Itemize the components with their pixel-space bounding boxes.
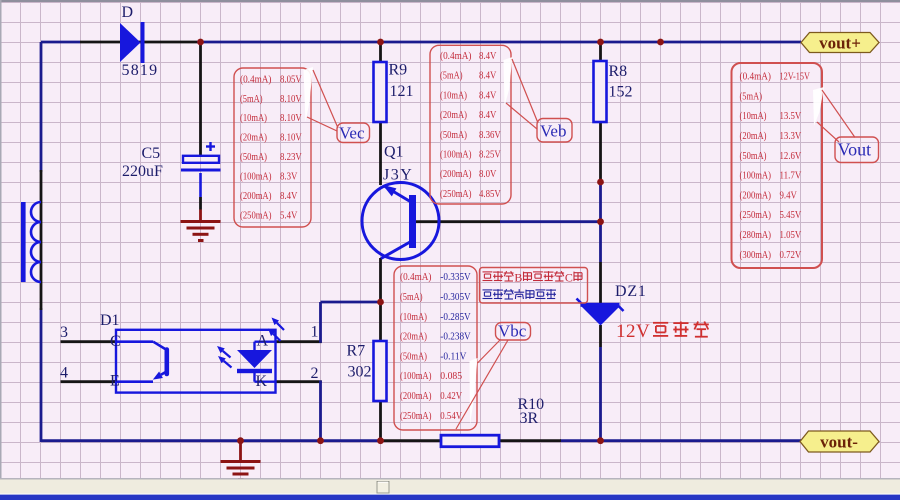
inductor winding (transformer) [21, 202, 41, 282]
svg-text:(20mA): (20mA) [440, 109, 467, 121]
junction dot 5 [377, 299, 384, 306]
svg-text:9.4V: 9.4V [780, 189, 797, 201]
svg-text:(250mA): (250mA) [740, 209, 772, 221]
svg-text:8.36V: 8.36V [479, 129, 501, 141]
svg-text:(0.4mA): (0.4mA) [740, 71, 772, 83]
junction dot 9 [317, 437, 324, 444]
value 5819 [122, 62, 159, 79]
callout lines Veb [506, 59, 538, 129]
wire: opto pin 4 lead [61, 380, 117, 383]
svg-text:(20mA): (20mA) [240, 132, 267, 144]
callout lines Vec [307, 70, 338, 131]
opto arrows at pin A (outer) [268, 318, 284, 342]
svg-text:8.0V: 8.0V [479, 168, 496, 180]
callout label Veb [537, 119, 572, 143]
svg-text:C: C [565, 271, 573, 285]
value 220uF [122, 163, 163, 180]
wire: zener to bottom rail [599, 325, 602, 442]
svg-text:-0.305V: -0.305V [440, 291, 470, 303]
status bar blue [0, 494, 900, 500]
scrollbar track [0, 478, 900, 494]
svg-text:220uF: 220uF [122, 163, 163, 180]
svg-text:13.5V: 13.5V [780, 110, 802, 122]
wire: bottom rail navy [242, 439, 801, 442]
zener note: 12V regulator text [616, 321, 709, 342]
transistor Q1 J3Y [362, 183, 439, 260]
svg-text:(200mA): (200mA) [440, 168, 472, 180]
label D1 [100, 312, 120, 329]
wire: opto pin 2 lead and drop to bottom rail [276, 381, 322, 443]
svg-text:(100mA): (100mA) [440, 149, 472, 161]
svg-text:(10mA): (10mA) [740, 110, 767, 122]
svg-text:302: 302 [348, 364, 372, 381]
svg-text:E: E [110, 373, 120, 390]
svg-text:R7: R7 [347, 343, 366, 360]
junction dot 7 [597, 218, 604, 225]
diode D 5819 [120, 22, 145, 63]
junction dot 8 [237, 437, 244, 444]
wire: inductor black section [40, 170, 43, 310]
svg-text:(200mA): (200mA) [240, 190, 272, 202]
svg-text:vout+: vout+ [819, 34, 861, 53]
svg-text:0.42V: 0.42V [440, 390, 462, 402]
svg-text:-0.335V: -0.335V [440, 271, 470, 283]
resistor R10 3R [441, 435, 499, 447]
svg-text:1.05V: 1.05V [780, 229, 802, 241]
junction dot 10 [377, 437, 384, 444]
svg-text:C: C [110, 333, 121, 350]
svg-text:D: D [122, 4, 134, 21]
measurement table Vbc [394, 266, 477, 430]
annotation box (red note) [480, 268, 588, 304]
label R8 [609, 63, 628, 80]
svg-text:Veb: Veb [540, 122, 566, 141]
svg-text:-0.238V: -0.238V [440, 331, 470, 343]
wire: bottom rail black segments at R10 [383, 439, 561, 442]
opto transistor [116, 342, 167, 382]
value 302 [348, 364, 372, 381]
svg-text:8.4V: 8.4V [479, 50, 496, 62]
svg-text:8.4V: 8.4V [479, 109, 496, 121]
svg-text:8.4V: 8.4V [280, 190, 297, 202]
svg-text:(100mA): (100mA) [400, 370, 432, 382]
svg-text:13.3V: 13.3V [780, 130, 802, 142]
svg-text:4: 4 [60, 365, 68, 382]
scrollbar thumb [377, 482, 389, 494]
pin number 2 [311, 365, 319, 382]
value 121 [390, 83, 414, 100]
resistor R8 152 [594, 61, 607, 122]
value 3R [520, 410, 539, 427]
svg-text:8.3V: 8.3V [280, 171, 297, 183]
svg-text:(0.4mA): (0.4mA) [440, 50, 472, 62]
svg-text:8.23V: 8.23V [280, 151, 302, 163]
svg-text:Vec: Vec [339, 124, 365, 143]
svg-text:3R: 3R [520, 410, 539, 427]
svg-text:(200mA): (200mA) [400, 390, 432, 402]
wire: Q1 base wire [416, 220, 601, 223]
label R9 [389, 62, 408, 79]
svg-text:R8: R8 [609, 63, 628, 80]
svg-text:12V-15V: 12V-15V [780, 71, 810, 83]
ground (C5) [181, 210, 221, 241]
svg-text:8.10V: 8.10V [280, 132, 302, 144]
junction dot 11 [597, 437, 604, 444]
resistor R7 302 [374, 341, 387, 401]
junction dot 3 [597, 39, 604, 46]
svg-text:12.6V: 12.6V [780, 150, 802, 162]
label D [122, 4, 134, 21]
svg-text:C5: C5 [142, 145, 161, 162]
svg-text:0.72V: 0.72V [780, 249, 802, 261]
svg-text:11.7V: 11.7V [780, 170, 802, 182]
power port vout+ [801, 33, 879, 53]
zener diode DZ1 [577, 299, 624, 326]
junction dot 1 [197, 39, 204, 46]
label C5 [142, 145, 161, 162]
svg-text:Vbc: Vbc [498, 322, 527, 341]
label DZ1 [615, 283, 647, 300]
svg-text:8.4V: 8.4V [479, 89, 496, 101]
svg-text:(50mA): (50mA) [740, 150, 767, 162]
svg-text:R9: R9 [389, 62, 408, 79]
svg-text:Q1: Q1 [384, 144, 404, 161]
label Q1 [384, 144, 404, 161]
wire: left loop vertical + top segment [41, 42, 242, 442]
wire: Q1 collector to R7 black [379, 258, 382, 442]
svg-text:(10mA): (10mA) [240, 112, 267, 124]
measurement table Vec [234, 68, 311, 227]
junction dot 2 [377, 39, 384, 46]
wire: R8 branch [599, 43, 602, 304]
opto LED [237, 342, 276, 382]
svg-text:(100mA): (100mA) [240, 171, 272, 183]
svg-text:(10mA): (10mA) [440, 89, 467, 101]
capacitor C5 220uF [181, 142, 221, 197]
svg-text:-0.285V: -0.285V [440, 311, 470, 323]
value J3Y [383, 167, 413, 184]
svg-text:(5mA): (5mA) [400, 291, 423, 303]
svg-text:D1: D1 [100, 312, 120, 329]
svg-text:0.54V: 0.54V [440, 410, 462, 422]
wire: C5 branch black [199, 43, 202, 210]
junction dot 6 [597, 179, 604, 186]
svg-text:12V: 12V [616, 321, 650, 342]
svg-text:1: 1 [311, 324, 319, 341]
glare wedge on Vec table [304, 67, 314, 122]
svg-text:A: A [257, 333, 269, 350]
svg-text:(20mA): (20mA) [400, 331, 427, 343]
svg-text:(250mA): (250mA) [440, 188, 472, 200]
svg-text:152: 152 [609, 84, 633, 101]
annotation text line 2 (blue) [483, 289, 557, 299]
svg-text:4.85V: 4.85V [479, 188, 501, 200]
svg-text:8.25V: 8.25V [479, 149, 501, 161]
wire: opto pin 1 lead and riser to node [276, 302, 381, 343]
pin label C [110, 333, 121, 350]
svg-text:DZ1: DZ1 [615, 283, 647, 300]
svg-text:(10mA): (10mA) [400, 311, 427, 323]
svg-text:(0.4mA): (0.4mA) [400, 271, 432, 283]
opto LED emission arrows (inner) [217, 346, 232, 368]
svg-text:(280mA): (280mA) [740, 229, 772, 241]
svg-text:(5mA): (5mA) [440, 70, 463, 82]
measurement table Veb [430, 45, 511, 204]
svg-text:(50mA): (50mA) [440, 129, 467, 141]
svg-text:(5mA): (5mA) [240, 93, 263, 105]
callout label Vout [835, 137, 879, 163]
ground (bottom rail) [221, 443, 261, 480]
svg-text:(300mA): (300mA) [740, 249, 772, 261]
svg-text:(250mA): (250mA) [240, 209, 272, 221]
svg-text:(200mA): (200mA) [740, 189, 772, 201]
resistor R9 121 [374, 62, 387, 122]
pin number 4 [60, 365, 68, 382]
label R10 [518, 396, 545, 413]
svg-text:3: 3 [60, 324, 68, 341]
svg-text:8.4V: 8.4V [479, 70, 496, 82]
svg-text:K: K [256, 373, 268, 390]
power port vout- [800, 431, 879, 452]
svg-text:(250mA): (250mA) [400, 410, 432, 422]
optocoupler D1 body [116, 330, 276, 393]
callout lines Vout [817, 90, 855, 142]
svg-text:B: B [514, 271, 522, 285]
svg-text:121: 121 [390, 83, 414, 100]
svg-text:5819: 5819 [122, 62, 159, 79]
svg-text:(0.4mA): (0.4mA) [240, 73, 272, 85]
glare wedge on Veb table [504, 57, 513, 106]
svg-text:J3Y: J3Y [383, 167, 413, 184]
junction dot 4 [657, 39, 664, 46]
svg-text:(20mA): (20mA) [740, 130, 767, 142]
callout label Vbc [496, 322, 531, 341]
pin number 3 [60, 324, 68, 341]
wire: top rail black segment through diode [80, 41, 197, 44]
pin number 1 [311, 324, 319, 341]
svg-text:0.085: 0.085 [440, 370, 462, 382]
svg-text:2: 2 [311, 365, 319, 382]
svg-text:(50mA): (50mA) [240, 151, 267, 163]
wire: top rail navy [197, 41, 801, 44]
svg-text:5.4V: 5.4V [280, 209, 297, 221]
svg-text:8.05V: 8.05V [280, 73, 302, 85]
value 152 [609, 84, 633, 101]
pin label K [256, 373, 268, 390]
glare wedge on Vbc table [470, 358, 478, 425]
svg-text:8.10V: 8.10V [280, 93, 302, 105]
callout label Vec [337, 123, 370, 143]
svg-text:(50mA): (50mA) [400, 350, 427, 362]
svg-text:5.45V: 5.45V [780, 209, 802, 221]
pin label E [110, 373, 120, 390]
svg-text:-0.11V: -0.11V [440, 350, 466, 362]
svg-text:Vout: Vout [838, 140, 872, 160]
svg-text:vout-: vout- [820, 433, 858, 452]
pin label A [257, 333, 269, 350]
wire: opto pin 3 lead [61, 340, 117, 343]
callout lines Vbc [456, 340, 508, 429]
svg-text:8.10V: 8.10V [280, 112, 302, 124]
glare wedge on Vout table [813, 87, 824, 126]
annotation text line 1 (red) [483, 271, 583, 285]
measurement table Vout [732, 63, 823, 268]
wire: R9 branch black [379, 43, 382, 185]
label R7 [347, 343, 366, 360]
svg-text:(100mA): (100mA) [740, 170, 772, 182]
svg-text:(5mA): (5mA) [740, 90, 763, 102]
